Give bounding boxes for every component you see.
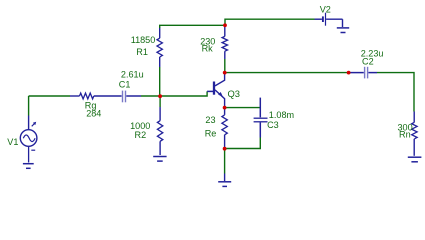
- resistor Re: [224, 109, 226, 115]
- ground (Rn): [408, 156, 422, 158]
- svg-text:R2: R2: [135, 130, 147, 140]
- svg-text:C1: C1: [119, 79, 131, 89]
- wire C1 to node: [141, 95, 160, 97]
- ground (Re): [218, 181, 231, 183]
- ground (R2): [153, 156, 166, 158]
- node junction dots: [158, 94, 162, 98]
- battery V2: [315, 18, 322, 20]
- svg-text:2.61u: 2.61u: [121, 70, 144, 80]
- svg-text:V1: V1: [7, 137, 18, 147]
- svg-text:C2: C2: [362, 57, 374, 67]
- capacitor C3: [259, 98, 261, 118]
- svg-text:C3: C3: [267, 120, 279, 130]
- capacitor C1: [110, 95, 122, 97]
- emitter wire to C3: [225, 107, 261, 109]
- rail jog to V2: [225, 19, 315, 25]
- wire node to base jog: [160, 91, 207, 96]
- svg-text:V2: V2: [320, 5, 331, 15]
- resistor R1: [159, 28, 161, 39]
- resistor Rg: [70, 95, 80, 97]
- transistor Q3: [213, 82, 215, 95]
- wire C2 to Rn: [377, 73, 414, 112]
- ground (V2): [337, 27, 349, 29]
- svg-text:Rk: Rk: [202, 44, 214, 54]
- svg-text:R1: R1: [136, 47, 148, 57]
- collector rail: [225, 72, 349, 74]
- source V1: [28, 96, 30, 116]
- resistor R2: [159, 96, 161, 107]
- svg-text:Re: Re: [205, 128, 217, 138]
- svg-text:Rn: Rn: [399, 130, 411, 140]
- svg-text:11850: 11850: [131, 35, 156, 45]
- wire Re to ground: [224, 149, 226, 174]
- ground (V1): [23, 163, 34, 165]
- resistor Rk: [224, 25, 226, 36]
- svg-text:1.08m: 1.08m: [269, 110, 294, 120]
- wire V1 to Rg: [29, 95, 70, 97]
- svg-text:284: 284: [86, 109, 101, 119]
- svg-text:Q3: Q3: [228, 88, 241, 99]
- capacitor C2: [349, 72, 364, 74]
- svg-text:23: 23: [205, 115, 215, 125]
- resistor Rn: [413, 112, 415, 123]
- top rail wire: [160, 25, 225, 28]
